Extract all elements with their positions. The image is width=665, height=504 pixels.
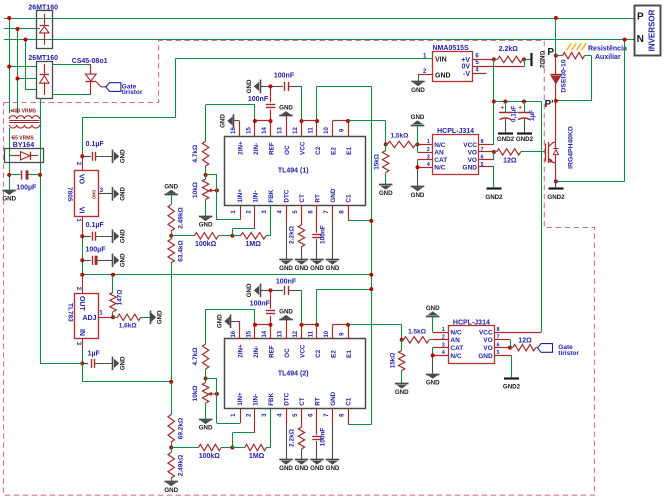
- svg-text:10: 10: [324, 127, 330, 134]
- svg-text:100nF: 100nF: [274, 73, 295, 80]
- svg-text:N: N: [637, 34, 644, 45]
- svg-text:E2: E2: [331, 350, 338, 358]
- svg-text:P: P: [547, 47, 554, 58]
- svg-text:100kΩ: 100kΩ: [199, 453, 221, 460]
- svg-text:GND: GND: [395, 389, 409, 396]
- svg-text:DTC: DTC: [284, 392, 291, 405]
- svg-text:26MT160: 26MT160: [28, 55, 58, 62]
- svg-text:GND2: GND2: [538, 51, 545, 69]
- svg-text:GND: GND: [411, 87, 425, 94]
- svg-text:GND: GND: [120, 356, 127, 370]
- svg-text:AN: AN: [434, 149, 444, 156]
- svg-text:2.2kΩ: 2.2kΩ: [289, 226, 296, 244]
- svg-text:GND2: GND2: [503, 383, 521, 390]
- svg-text:2IN-: 2IN-: [253, 346, 260, 358]
- svg-text:E1: E1: [346, 147, 353, 155]
- svg-text:GND: GND: [330, 188, 337, 202]
- svg-text:ADJ: ADJ: [82, 315, 96, 322]
- svg-text:63.4kΩ: 63.4kΩ: [178, 240, 185, 261]
- svg-text:16: 16: [231, 330, 237, 337]
- svg-text:VCC: VCC: [463, 142, 477, 149]
- svg-text:GND2: GND2: [485, 194, 503, 201]
- svg-text:1IN+: 1IN+: [237, 392, 244, 406]
- svg-text:GND: GND: [411, 192, 425, 199]
- svg-text:11: 11: [309, 127, 315, 134]
- svg-text:GND: GND: [120, 229, 127, 243]
- svg-text:GND2: GND2: [547, 194, 565, 201]
- svg-text:CAT: CAT: [450, 345, 463, 352]
- svg-text:GND: GND: [310, 465, 324, 472]
- svg-text:GND: GND: [199, 425, 213, 432]
- svg-text:2.2kΩ: 2.2kΩ: [289, 429, 296, 447]
- svg-text:FBK: FBK: [268, 392, 275, 405]
- svg-text:0.1µF: 0.1µF: [86, 141, 105, 148]
- svg-text:15: 15: [247, 127, 253, 134]
- svg-text:+: +: [518, 104, 522, 111]
- svg-text:GND: GND: [164, 183, 178, 190]
- svg-text:12: 12: [293, 330, 299, 337]
- svg-text:GND: GND: [217, 314, 224, 328]
- svg-text:P: P: [637, 12, 644, 23]
- svg-text:100nF: 100nF: [248, 96, 269, 103]
- svg-text:14: 14: [262, 330, 268, 337]
- svg-text:VCC: VCC: [300, 344, 307, 358]
- svg-text:OC: OC: [284, 145, 291, 155]
- svg-text:0.1µF: 0.1µF: [86, 222, 105, 229]
- svg-text:C2: C2: [315, 146, 322, 155]
- svg-text:14: 14: [262, 127, 268, 134]
- svg-text:GND: GND: [220, 114, 227, 128]
- svg-text:GND: GND: [326, 265, 340, 272]
- svg-text:VCC: VCC: [479, 329, 493, 336]
- svg-text:N/C: N/C: [434, 165, 446, 172]
- svg-text:TL783: TL783: [66, 303, 73, 322]
- svg-text:IN: IN: [78, 329, 85, 336]
- svg-text:tiristor: tiristor: [122, 89, 143, 96]
- svg-text:GND: GND: [246, 79, 253, 93]
- svg-text:VCC: VCC: [300, 141, 307, 155]
- svg-text:RT: RT: [315, 397, 322, 406]
- svg-text:0V: 0V: [461, 64, 470, 71]
- svg-text:7805: 7805: [66, 187, 73, 202]
- svg-text:69.2kΩ: 69.2kΩ: [178, 418, 185, 439]
- svg-text:5: 5: [480, 162, 483, 168]
- svg-text:1MΩ: 1MΩ: [246, 241, 262, 248]
- svg-text:GND: GND: [295, 465, 309, 472]
- svg-text:VO: VO: [78, 174, 85, 185]
- svg-text:2.49kΩ: 2.49kΩ: [178, 207, 185, 228]
- svg-text:FBK: FBK: [268, 189, 275, 202]
- svg-text:E1: E1: [346, 350, 353, 358]
- svg-text:-V: -V: [463, 71, 470, 78]
- svg-text:11: 11: [309, 330, 315, 337]
- svg-text:10: 10: [324, 330, 330, 337]
- svg-text:VO: VO: [468, 157, 477, 164]
- svg-text:Auxiliar: Auxiliar: [595, 54, 621, 61]
- svg-text:GND: GND: [379, 190, 393, 197]
- svg-text:CS45-08o1: CS45-08o1: [72, 58, 108, 65]
- svg-text:tiristor: tiristor: [558, 350, 579, 357]
- svg-text:P': P': [544, 99, 553, 110]
- svg-text:GND: GND: [279, 309, 293, 316]
- svg-text:1MΩ: 1MΩ: [249, 453, 265, 460]
- svg-text:VO: VO: [483, 345, 492, 352]
- svg-text:12Ω: 12Ω: [518, 337, 532, 344]
- svg-text:RT: RT: [315, 194, 322, 203]
- svg-text:GND: GND: [330, 391, 337, 405]
- svg-text:1IN-: 1IN-: [253, 394, 260, 406]
- svg-text:13: 13: [278, 127, 284, 134]
- svg-text:NMA0515S: NMA0515S: [433, 45, 470, 52]
- svg-text:12Ω: 12Ω: [503, 158, 517, 165]
- svg-text:10kΩ: 10kΩ: [192, 385, 199, 401]
- svg-text:10kΩ: 10kΩ: [192, 182, 199, 198]
- svg-text:DSEI30-10: DSEI30-10: [560, 59, 567, 92]
- svg-text:REF: REF: [269, 345, 276, 358]
- svg-text:26MT160: 26MT160: [28, 4, 58, 11]
- svg-text:E2: E2: [331, 147, 338, 155]
- svg-text:15kΩ: 15kΩ: [373, 154, 380, 170]
- svg-text:AN: AN: [450, 337, 460, 344]
- svg-text:100nF: 100nF: [276, 279, 297, 286]
- svg-text:100kΩ: 100kΩ: [195, 241, 217, 248]
- svg-text:100nF: 100nF: [320, 428, 327, 447]
- svg-text:2IN+: 2IN+: [238, 344, 245, 358]
- svg-text:15kΩ: 15kΩ: [389, 353, 396, 369]
- svg-text:GND: GND: [120, 149, 127, 163]
- svg-text:OC: OC: [284, 348, 291, 358]
- svg-text:GND: GND: [2, 196, 16, 203]
- svg-text:DTC: DTC: [284, 189, 291, 202]
- svg-text:100nF: 100nF: [320, 225, 327, 244]
- svg-text:GND: GND: [295, 265, 309, 272]
- svg-text:GND: GND: [120, 186, 127, 200]
- svg-text:CAT: CAT: [434, 157, 447, 164]
- svg-text:IRG4PH40KD: IRG4PH40KD: [568, 126, 575, 169]
- svg-text:2.2kΩ: 2.2kΩ: [499, 46, 519, 53]
- svg-text:C1: C1: [346, 194, 353, 203]
- svg-text:55 VRMS: 55 VRMS: [12, 135, 34, 141]
- svg-text:2.49kΩ: 2.49kΩ: [178, 455, 185, 476]
- svg-text:100µF: 100µF: [86, 247, 107, 254]
- svg-text:100µF: 100µF: [16, 184, 37, 191]
- svg-text:Resistência: Resistência: [588, 46, 627, 53]
- svg-text:400 VRMS: 400 VRMS: [12, 108, 37, 114]
- svg-text:GND2: GND2: [516, 136, 534, 143]
- svg-text:GND: GND: [92, 190, 97, 199]
- svg-text:147Ω: 147Ω: [117, 289, 124, 305]
- svg-text:GND: GND: [246, 283, 253, 297]
- svg-text:N/C: N/C: [450, 353, 462, 360]
- svg-text:13: 13: [278, 330, 284, 337]
- svg-text:HCPL-J314: HCPL-J314: [453, 319, 490, 326]
- svg-text:GND: GND: [279, 105, 293, 112]
- svg-text:C1: C1: [346, 397, 353, 406]
- svg-text:GND: GND: [120, 253, 127, 267]
- svg-text:GND: GND: [426, 379, 440, 386]
- svg-text:GND: GND: [326, 465, 340, 472]
- svg-text:4.7kΩ: 4.7kΩ: [192, 145, 199, 163]
- svg-text:GND: GND: [157, 310, 164, 324]
- svg-text:GND: GND: [463, 165, 478, 172]
- svg-text:VI: VI: [78, 207, 85, 214]
- svg-text:OUT: OUT: [78, 296, 85, 312]
- svg-text:GND2: GND2: [497, 136, 515, 143]
- svg-text:HCPL-J314: HCPL-J314: [437, 128, 474, 135]
- svg-text:GND: GND: [199, 222, 213, 229]
- svg-text:+: +: [500, 104, 504, 111]
- svg-text:2IN-: 2IN-: [253, 143, 260, 155]
- svg-text:GND: GND: [435, 73, 451, 80]
- svg-text:CT: CT: [299, 397, 306, 406]
- svg-text:1.5kΩ: 1.5kΩ: [408, 328, 426, 335]
- svg-text:VIN: VIN: [435, 57, 447, 64]
- svg-text:GND: GND: [164, 487, 178, 494]
- svg-text:TL494 (1): TL494 (1): [278, 168, 309, 175]
- svg-text:GND: GND: [279, 465, 293, 472]
- svg-text:GND: GND: [279, 265, 293, 272]
- svg-text:1IN+: 1IN+: [237, 189, 244, 203]
- svg-text:1,5kΩ: 1,5kΩ: [390, 132, 408, 139]
- svg-text:4.7kΩ: 4.7kΩ: [192, 348, 199, 366]
- svg-text:15: 15: [247, 330, 253, 337]
- svg-text:TL494 (2): TL494 (2): [278, 371, 309, 378]
- svg-text:N/C: N/C: [434, 142, 446, 149]
- svg-text:GND: GND: [478, 353, 493, 360]
- svg-text:CT: CT: [299, 194, 306, 203]
- svg-text:VO: VO: [468, 149, 477, 156]
- svg-text:100nF: 100nF: [250, 301, 271, 308]
- svg-text:GND: GND: [411, 114, 425, 121]
- svg-text:REF: REF: [269, 142, 276, 155]
- svg-text:0,1µF: 0,1µF: [511, 106, 518, 122]
- svg-text:2IN+: 2IN+: [238, 141, 245, 155]
- svg-text:1IN-: 1IN-: [253, 191, 260, 203]
- svg-text:1µF: 1µF: [88, 350, 101, 357]
- svg-text:GND: GND: [310, 265, 324, 272]
- svg-text:C2: C2: [315, 349, 322, 358]
- svg-text:1,6kΩ: 1,6kΩ: [119, 323, 137, 330]
- svg-text:INVERSOR: INVERSOR: [648, 9, 657, 51]
- svg-text:GND: GND: [426, 305, 440, 312]
- svg-text:1µF: 1µF: [529, 110, 536, 121]
- svg-text:VO: VO: [483, 337, 492, 344]
- svg-text:12: 12: [293, 127, 299, 134]
- svg-text:N/C: N/C: [450, 329, 462, 336]
